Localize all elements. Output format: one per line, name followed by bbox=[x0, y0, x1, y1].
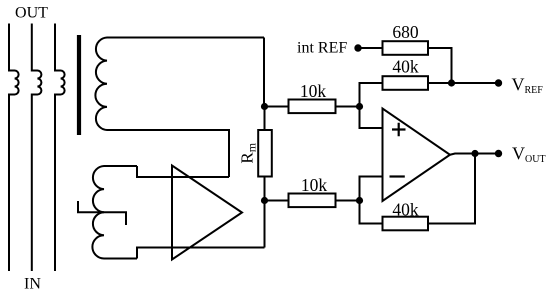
op-amp U2 (triangle) bbox=[383, 109, 451, 202]
svg-text:40k: 40k bbox=[392, 200, 419, 220]
wire int REF to R3 bbox=[358, 47, 383, 49]
wire R5 right up to node F bbox=[428, 154, 475, 224]
svg-text:int REF: int REF bbox=[297, 40, 347, 57]
resistor R2 10k (bottom) bbox=[289, 194, 336, 208]
svg-text:VREF: VREF bbox=[512, 75, 544, 97]
resistor R1 10k (top) bbox=[289, 100, 336, 114]
svg-text:10k: 10k bbox=[301, 175, 328, 195]
wire from transformer top down to node A bbox=[263, 38, 265, 107]
wire line 1 (OUT to IN, left) with inductor L1 bbox=[9, 24, 19, 272]
wire from coil bottom step to node B net bbox=[137, 248, 265, 259]
wire line 3 (right) with inductor L3 bbox=[55, 24, 65, 272]
node A junction dot bbox=[261, 103, 268, 110]
left tap stub of compensation winding bbox=[78, 201, 104, 212]
wire line 2 (middle) with inductor L2 bbox=[32, 24, 42, 272]
transformer secondary winding (4 turns) with top wire to node A and bottom wire bbox=[95, 38, 264, 178]
transformer core bar bbox=[77, 35, 81, 135]
resistor R5 40k (lower feedback) bbox=[383, 217, 429, 231]
wire node B down to lower net bbox=[264, 201, 266, 248]
wire Rm bottom to node B bbox=[264, 177, 266, 201]
wire node A to Rm top bbox=[264, 107, 266, 131]
right tap stub of compensation winding bbox=[104, 212, 126, 225]
int REF terminal dot bbox=[354, 44, 361, 51]
node E junction dot bbox=[448, 79, 455, 86]
wire R1 to node C bbox=[336, 106, 360, 108]
power amplifier U1 (triangle) bbox=[172, 166, 242, 260]
wire node C up to R4 left bbox=[360, 83, 383, 107]
wire node B to R2 bbox=[265, 200, 289, 202]
wire R3 right to node E bbox=[428, 48, 452, 83]
svg-text:Rm: Rm bbox=[238, 142, 259, 163]
wire node A to R1 bbox=[265, 106, 289, 108]
compensation winding (lower coil, 4 turns) bbox=[92, 166, 137, 259]
svg-text:680: 680 bbox=[392, 22, 419, 42]
svg-text:IN: IN bbox=[24, 276, 41, 293]
svg-text:OUT: OUT bbox=[15, 5, 48, 22]
resistor Rm (vertical) bbox=[258, 130, 272, 177]
svg-text:40k: 40k bbox=[392, 57, 419, 77]
wire op-amp output to VOUT terminal bbox=[450, 154, 499, 155]
VOUT terminal dot bbox=[495, 150, 502, 157]
resistor R4 40k (upper feedback) bbox=[383, 76, 429, 90]
wire node D down to R5 left bbox=[360, 201, 383, 224]
node F junction dot bbox=[471, 150, 478, 157]
wire node D to op-amp - input bbox=[360, 177, 383, 201]
node B junction dot bbox=[261, 197, 268, 204]
op-amp plus input symbol bbox=[392, 123, 406, 137]
svg-text:10k: 10k bbox=[300, 81, 327, 101]
wire R4 right through node E to VREF terminal bbox=[428, 82, 499, 84]
wire from coil top step to amplifier input / transformer bottom bbox=[137, 166, 229, 177]
op-amp minus input symbol bbox=[390, 175, 405, 177]
resistor R3 680 bbox=[383, 41, 429, 55]
wire node C to op-amp + input bbox=[360, 107, 383, 129]
wire R2 to node D bbox=[336, 200, 360, 202]
VREF terminal dot bbox=[495, 79, 502, 86]
svg-text:VOUT: VOUT bbox=[512, 144, 546, 166]
node C junction dot bbox=[356, 103, 363, 110]
node D junction dot bbox=[356, 197, 363, 204]
